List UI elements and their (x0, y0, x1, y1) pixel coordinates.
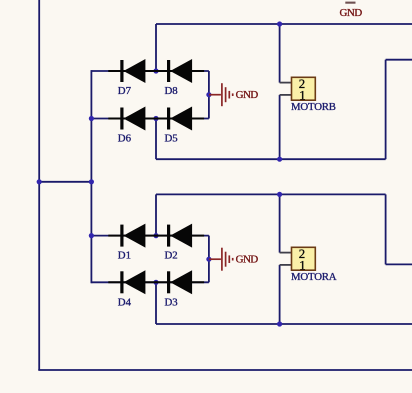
node D4-D3 (153, 280, 158, 285)
node bus4 / MOTORA pin1 (277, 321, 282, 326)
svg-text:D3: D3 (165, 296, 178, 308)
node D7-D8 (153, 68, 158, 73)
wire: left vertical rail (38, 0, 40, 370)
connector MOTORA (292, 247, 316, 270)
diode D6 (108, 107, 157, 131)
wire: D6 junction drop (155, 119, 157, 160)
wire: right bracket bottom group (208, 236, 210, 283)
wire: right riser bus2 (385, 60, 387, 160)
node left rail stub (37, 179, 42, 184)
svg-text:D5: D5 (165, 133, 178, 145)
node D6-D5 (153, 116, 158, 121)
wire: row D7-D8 (91, 70, 208, 72)
svg-text:GND: GND (340, 7, 363, 19)
svg-text:D7: D7 (118, 85, 132, 97)
connector MOTORB (292, 77, 316, 100)
pin 2 stub MOTORB (280, 82, 292, 84)
svg-text:GND: GND (236, 89, 259, 101)
wire: bus2 horizontal (156, 158, 386, 160)
wire: exit right top (386, 59, 412, 61)
svg-text:MOTORB: MOTORB (291, 101, 336, 113)
wire: MOTORB pin2 riser (279, 24, 281, 83)
wire: left stub between rails (39, 181, 91, 183)
ground GND (bottom group) (209, 248, 233, 271)
node bracket stub (89, 179, 94, 184)
svg-text:D1: D1 (118, 250, 131, 262)
wire: MOTORB pin1 drop (279, 95, 281, 159)
pin 2 stub MOTORA (280, 252, 292, 254)
node GND top bracket (206, 92, 211, 97)
ground symbol top edge (partial) (345, 2, 355, 4)
pin 1 stub MOTORA (280, 264, 292, 266)
node left bracket D1 row (89, 233, 94, 238)
wire: MOTORA pin2 riser (279, 194, 281, 252)
wire: row D6-D5 (91, 118, 208, 120)
wire: left bracket vertical (90, 70, 92, 283)
diode D7 (108, 59, 157, 83)
wire: top bus drop to D7 row (155, 24, 157, 71)
svg-text:GND: GND (236, 254, 259, 266)
diode D8 (155, 59, 204, 83)
node bus3 / MOTORA pin2 (277, 192, 282, 197)
wire: bus4 horizontal (156, 323, 412, 325)
ground GND (top group) (209, 83, 233, 106)
node GND bottom bracket (206, 257, 211, 262)
wire: right drop bus3 (385, 194, 387, 264)
wire: exit right middle (386, 263, 412, 265)
wire: row D4-D3 (91, 281, 208, 283)
wire: row D1-D2 (91, 235, 208, 237)
svg-text:D6: D6 (118, 133, 132, 145)
wire: bottom bus (38, 369, 412, 371)
wire: bus3 horizontal (156, 193, 386, 195)
wire: right bracket top group (208, 71, 210, 119)
wire: top bus (156, 23, 412, 25)
wire: MOTORA pin1 drop (279, 265, 281, 324)
svg-text:MOTORA: MOTORA (291, 271, 337, 283)
node bus2 / MOTORB pin1 (277, 157, 282, 162)
pin 1 stub MOTORB (280, 94, 292, 96)
diode D3 (155, 270, 204, 294)
svg-text:D4: D4 (118, 296, 132, 308)
wire: bus3 drop to D1 row (155, 194, 157, 235)
node D1-D2 (153, 233, 158, 238)
pin stubs MOTORB (280, 83, 292, 265)
svg-text:D8: D8 (165, 85, 178, 97)
node top bus / MOTORB (277, 21, 282, 26)
diode D4 (108, 270, 157, 294)
node left bracket D6 row (89, 116, 94, 121)
wire: D3 junction drop (155, 282, 157, 324)
diode D1 (108, 224, 157, 248)
diode D5 (155, 107, 204, 131)
diode D2 (155, 224, 204, 248)
svg-text:D2: D2 (165, 250, 178, 262)
